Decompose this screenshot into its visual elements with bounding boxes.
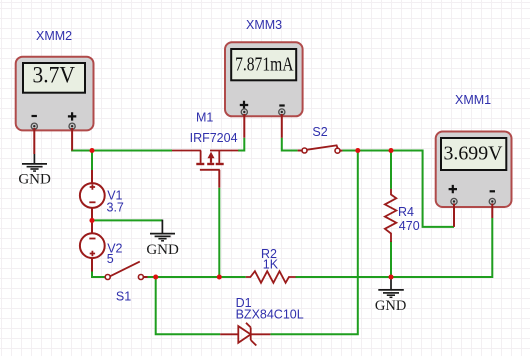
svg-text:1K: 1K bbox=[263, 257, 279, 271]
svg-text:BZX84C10L: BZX84C10L bbox=[236, 308, 304, 322]
svg-text:GND: GND bbox=[375, 298, 406, 314]
wire node B down to D1 anode bbox=[155, 277, 221, 334]
source V2 bbox=[80, 220, 105, 271]
multimeter XMM1 bbox=[436, 132, 512, 208]
wire R4 top lead bbox=[390, 150, 392, 189]
zener diode D1 (BZX84C10L) bbox=[220, 323, 270, 346]
wire node A to V1 top bbox=[91, 150, 93, 171]
label R2 bbox=[261, 247, 277, 261]
multimeter XMM3 bbox=[225, 42, 303, 116]
label R4 bbox=[398, 205, 414, 219]
wire XMM3- to S2 left bbox=[281, 138, 298, 151]
label XMM3 bbox=[246, 18, 282, 32]
node junction dot output (R4/GND3/XMM1-) bbox=[388, 274, 393, 279]
wire R2 right to XMM1- (output node) bbox=[296, 218, 493, 278]
svg-text:3.7: 3.7 bbox=[107, 201, 124, 215]
svg-text:470: 470 bbox=[399, 219, 420, 233]
node junction dot S2 output / D1 cathode riser bbox=[355, 148, 360, 153]
resistor R4 bbox=[385, 189, 396, 242]
wire XMM3- lead down bbox=[281, 114, 283, 138]
svg-text:7.871mA: 7.871mA bbox=[235, 53, 294, 75]
wire XMM2+ lead down bbox=[71, 128, 73, 151]
label V1 bbox=[107, 189, 122, 203]
wire S2 right to corner, down and to XMM1+ bbox=[342, 150, 454, 227]
node junction dot M1 gate at bottom rail bbox=[217, 274, 222, 279]
svg-text:3.699V: 3.699V bbox=[443, 142, 502, 164]
wire R4 bottom to output node bbox=[390, 241, 392, 277]
multimeter XMM2 bbox=[16, 57, 94, 131]
wire M1 gate to node B bbox=[218, 188, 220, 277]
source V1 bbox=[80, 170, 105, 220]
label IRF7204 bbox=[190, 131, 238, 145]
wire S1 right to R2 left (node B) bbox=[147, 276, 246, 278]
label V2 value 5 bbox=[107, 252, 114, 266]
label M1 bbox=[196, 111, 213, 125]
svg-text:5: 5 bbox=[107, 252, 114, 266]
wire M1 drain to XMM3+ bbox=[238, 138, 244, 152]
switch S1 (open) bbox=[105, 262, 147, 280]
svg-text:XMM2: XMM2 bbox=[36, 29, 72, 43]
label D1 part BZX84C10L bbox=[236, 308, 304, 322]
ground GND1 bbox=[18, 154, 51, 187]
ground GND3 bbox=[375, 278, 406, 314]
node junction dot S2 output / R4 top bbox=[388, 148, 393, 153]
transistor M1 (IRF7204 p-MOSFET) bbox=[172, 151, 238, 188]
label D1 bbox=[236, 296, 252, 310]
label XMM2 bbox=[36, 29, 72, 43]
label XMM1 bbox=[455, 93, 491, 107]
svg-text:3.7V: 3.7V bbox=[32, 62, 75, 88]
label R4 value 470 bbox=[399, 219, 420, 233]
wire V2 bottom to S1 left bbox=[92, 271, 105, 277]
wire D1 cathode up to S2 output node bbox=[270, 151, 357, 336]
svg-text:GND: GND bbox=[146, 242, 179, 258]
wire XMM2- lead down bbox=[33, 128, 35, 154]
switch S2 (closed) bbox=[298, 145, 343, 153]
label S1 bbox=[116, 289, 131, 303]
svg-text:XMM1: XMM1 bbox=[455, 93, 491, 107]
node B junction dot (S1/R2/M1 gate/D1) bbox=[153, 274, 158, 279]
wire XMM1- lead down bbox=[491, 204, 493, 219]
wire XMM1+ lead down bbox=[453, 204, 455, 227]
node junction dot V1-V2 midpoint bbox=[89, 218, 94, 223]
svg-text:S2: S2 bbox=[312, 125, 327, 139]
label V2 bbox=[107, 241, 122, 255]
svg-text:R4: R4 bbox=[398, 205, 414, 219]
wire XMM3+ lead down bbox=[243, 114, 245, 138]
node A junction dot (XMM2+/V1/M1) bbox=[89, 148, 94, 153]
svg-text:XMM3: XMM3 bbox=[246, 18, 282, 32]
svg-text:IRF7204: IRF7204 bbox=[190, 131, 238, 145]
svg-text:S1: S1 bbox=[116, 289, 131, 303]
svg-text:M1: M1 bbox=[196, 111, 213, 125]
wire V1/V2 midpoint to GND2 bbox=[92, 219, 162, 221]
svg-text:GND: GND bbox=[18, 171, 51, 187]
ground GND2 bbox=[146, 220, 179, 258]
label R2 value 1K bbox=[263, 257, 279, 271]
wire XMM2+ to node A (top rail left) bbox=[71, 150, 172, 152]
resistor R2 bbox=[246, 271, 296, 283]
label V1 value 3.7 bbox=[107, 201, 124, 215]
label S2 bbox=[312, 125, 327, 139]
